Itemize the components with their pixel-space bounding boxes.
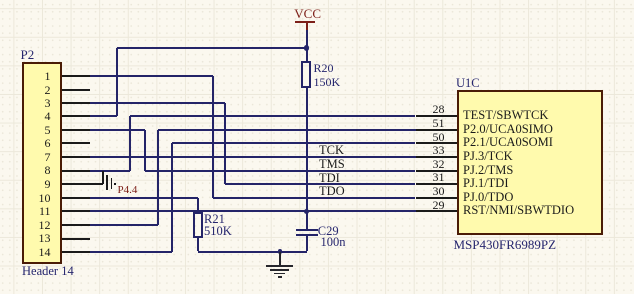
P2 pin 5 [62, 129, 90, 131]
wire R20 bottom to RST net [306, 88, 308, 211]
net label TCK [319, 144, 344, 157]
P2 pin 10 [62, 197, 90, 199]
net label TDO [319, 185, 345, 198]
U1C pin 32 PJ.2/TMS [416, 170, 457, 172]
wire TMS [145, 170, 416, 172]
wire pin14 vertical B [171, 143, 173, 252]
label R21 [204, 213, 225, 226]
wire VCC rail [117, 47, 307, 49]
label 510K [204, 225, 232, 238]
wire TEST [130, 115, 415, 117]
wire TCK [90, 156, 416, 158]
wire P2 pin 9 to net label [90, 183, 103, 185]
wire P2 pin 3 [90, 102, 225, 104]
P2 pin 13 [62, 238, 90, 240]
wire ground rail [198, 251, 306, 253]
label 150K [314, 76, 341, 88]
P2 pin 12 [62, 224, 90, 226]
wire P2 pin 4 [90, 115, 117, 117]
IC U1C body [457, 90, 604, 235]
P2 pin 1 [62, 75, 90, 77]
resistor R21 [193, 212, 203, 238]
IC U1C value MSP430FR6989PZ [454, 238, 557, 251]
resistor R20 [306, 48, 308, 61]
U1C pin 30 PJ.0/TDO [416, 197, 457, 199]
P2 pin 11 [62, 210, 90, 212]
net label TDI [319, 172, 340, 185]
wire P2 pin 8 [90, 170, 130, 172]
wire pin1 vertical [212, 76, 214, 198]
P2 pin 6 [62, 142, 90, 144]
power VCC symbol [294, 7, 321, 20]
wire pin3 vertical [224, 103, 226, 184]
U1C pin 29 RST/NMI/SBWTDIO [416, 210, 457, 212]
wire P2 pin 12 [90, 224, 158, 226]
wire UCA0SIMO [158, 129, 416, 131]
P2 pin 2 [62, 89, 90, 91]
wire pin10 vertical [197, 198, 199, 212]
wire P2 pin 1 [90, 75, 213, 77]
U1C pin 33 PJ.3/TCK [416, 156, 457, 158]
ground symbol [279, 252, 281, 266]
IC U1C designator [456, 77, 480, 90]
label C29 [318, 225, 339, 238]
P2 pin 7 [62, 156, 90, 158]
connector P2 [22, 62, 62, 265]
P2 pin 8 [62, 170, 90, 172]
wire UCA0SOMI [172, 142, 416, 144]
net label TMS [319, 158, 345, 171]
wire P2 pin 5 [90, 129, 145, 131]
junction ground [278, 249, 283, 254]
U1C pin 31 PJ.1/TDI [416, 183, 457, 185]
wire TEST vertical [129, 116, 131, 171]
wire VCC stem to junction [306, 30, 308, 49]
wire pin5 vertical [144, 130, 146, 171]
junction VCC/R20/pin4 [304, 45, 309, 50]
connector P2 value Header 14 [22, 265, 74, 278]
wire P2 pin 14 [90, 251, 172, 253]
wire TDI [225, 183, 415, 185]
connector P2 designator [21, 48, 35, 61]
P2 pin 14 [62, 251, 90, 253]
wire pin4 riser to VCC rail [116, 48, 118, 116]
node P4.4 marker [106, 175, 107, 190]
P2 pin 3 [62, 102, 90, 104]
P2 pin 9 [62, 183, 90, 185]
wire TDO [213, 197, 416, 199]
label R20 [314, 62, 334, 74]
junction RST/C29/R20 [304, 209, 309, 214]
U1C pin 28 TEST/SBWTCK [416, 115, 457, 117]
wire P2 pin 10 [90, 197, 198, 199]
P2 pin 4 [62, 115, 90, 117]
U1C pin 51 P2.0/UCA0SIMO [416, 129, 457, 131]
wire pin12 vertical A [157, 130, 159, 225]
label 100n [321, 236, 346, 249]
node label P4.4 [118, 185, 138, 196]
U1C pin 50 P2.1/UCA0SOMI [416, 142, 457, 144]
capacitor C29 [306, 211, 308, 229]
wire RST [90, 210, 416, 212]
